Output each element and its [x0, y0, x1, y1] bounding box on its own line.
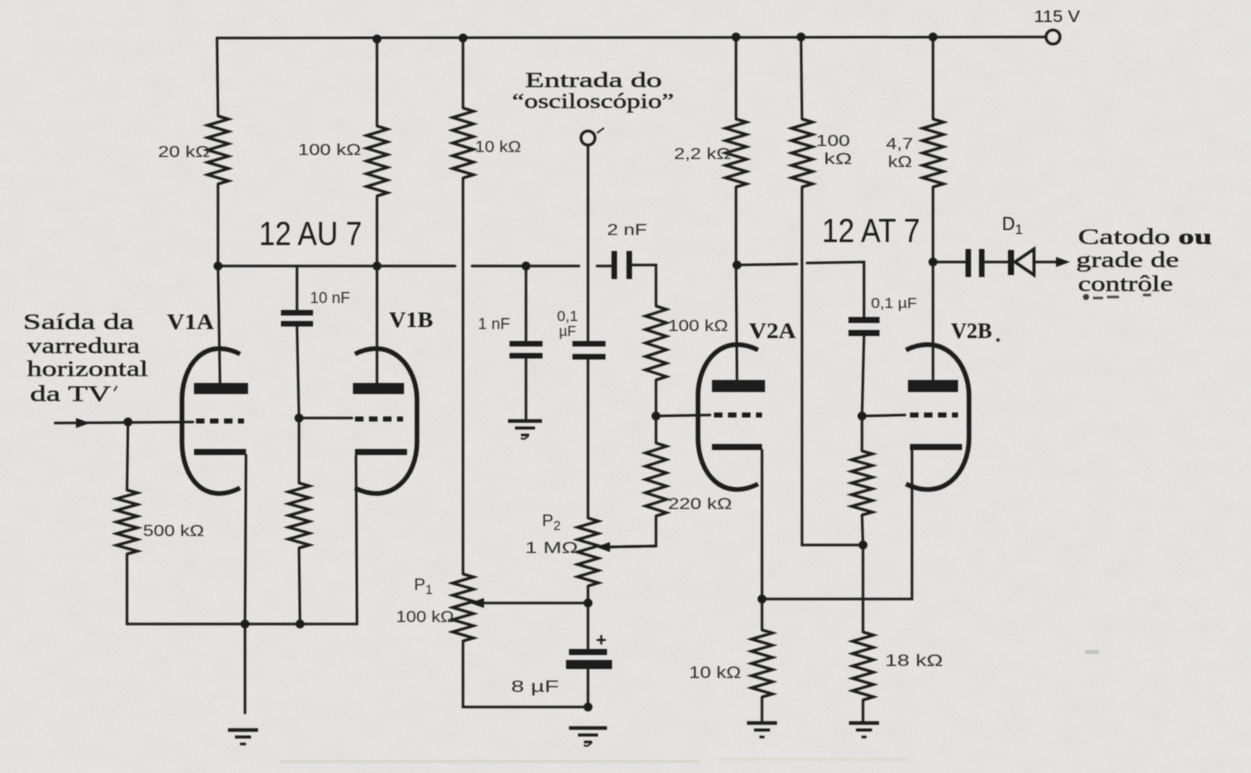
label 10nF: [310, 290, 350, 307]
node P1 wiper: [584, 599, 593, 608]
tube V2B envelope: [906, 345, 969, 490]
label P1: [414, 575, 433, 597]
ground 10k: [747, 723, 777, 737]
wire 100k right top: [801, 37, 802, 119]
label 4k7 b: [888, 154, 912, 171]
ground 18k: [849, 723, 879, 737]
label input line1: [23, 309, 134, 334]
wire 10k bot top: [761, 599, 764, 630]
node V2B plate: [929, 258, 938, 267]
node rail-100k: [373, 35, 382, 44]
svg-text:10 nF: 10 nF: [310, 290, 350, 307]
svg-text:100 kΩ: 100 kΩ: [668, 318, 728, 335]
label 0,1uF left b: [559, 323, 576, 340]
wire 2nF to x656 corner: [632, 265, 656, 306]
paper specks: [280, 650, 1099, 763]
label 1nF: [478, 316, 510, 333]
capacitor 10nF: [281, 310, 313, 327]
wire V2B grid lead: [862, 415, 905, 416]
label V1A: [167, 309, 214, 334]
resistor 4k7: [923, 119, 944, 187]
wire P1 bottom: [463, 641, 588, 707]
label P1 value: [396, 609, 454, 626]
label 10k: [475, 139, 521, 156]
node V2B grid: [858, 412, 867, 421]
potentiometer P1: [453, 574, 474, 641]
node rail-100k right: [797, 33, 806, 42]
tube V2A plate: [712, 380, 765, 392]
label 12AT7: [822, 212, 920, 249]
label 2nF: [607, 222, 647, 239]
wire bottom bus: [245, 456, 357, 624]
label 18k: [885, 651, 943, 670]
wire D1 lead1: [933, 261, 965, 264]
diode D1 bar: [1008, 250, 1014, 275]
resistor 500k: [117, 490, 138, 554]
wire 8uF bottom: [587, 669, 590, 707]
tube V1B plate lead: [376, 266, 379, 383]
wire 100k top: [376, 39, 379, 126]
wire V1B grid lead: [299, 417, 352, 420]
tube V2A cathode: [712, 444, 762, 450]
label catodo line1: [1078, 224, 1212, 249]
wire 10k bot bottom: [761, 697, 764, 722]
svg-text:115 V: 115 V: [1034, 7, 1081, 26]
svg-text:10 kΩ: 10 kΩ: [689, 663, 741, 682]
svg-text:V1A: V1A: [167, 309, 214, 334]
label P2: [542, 511, 561, 533]
tube V2B plate lead: [932, 262, 935, 379]
resistor 10k bottom: [752, 630, 773, 697]
svg-text:220 kΩ: 220 kΩ: [668, 496, 732, 513]
wire V1A cathode down: [245, 455, 246, 713]
tube V1B envelope: [355, 349, 417, 494]
wire V2A grid lead: [656, 415, 710, 416]
svg-text:kΩ: kΩ: [888, 154, 912, 171]
wire P1 node to 8uF: [587, 603, 590, 649]
tube V1A cathode: [194, 449, 246, 455]
svg-text:8 µF: 8 µF: [511, 677, 559, 696]
wire 100k mid bottom: [655, 380, 658, 416]
svg-text:da TV: da TV: [30, 381, 111, 406]
label 100k left: [298, 142, 361, 159]
node 1nF tap: [522, 262, 531, 271]
tube V1B cathode: [355, 449, 407, 455]
wire 20k top: [217, 38, 218, 116]
node V2A grid: [652, 412, 661, 421]
node V1B plate: [373, 262, 382, 271]
tube V2B cathode: [910, 444, 962, 450]
label 100k right a: [816, 133, 850, 150]
wire 220k top: [655, 416, 658, 443]
wire P2 bottom: [587, 586, 590, 603]
capacitor 1nF: [510, 341, 543, 359]
label 100k right b: [824, 151, 852, 168]
svg-text:V2A: V2A: [749, 318, 796, 343]
svg-text:contrôle: contrôle: [1078, 271, 1173, 296]
label D1: [1002, 214, 1023, 237]
terminal entrada: [581, 128, 604, 145]
node V2A cathode: [758, 595, 767, 604]
terminal 115 V: [1046, 30, 1060, 44]
label 4k7 a: [886, 136, 913, 153]
wire 2k2 bottom: [735, 187, 738, 265]
wire 1nF top: [525, 266, 528, 341]
node V2A plate: [733, 261, 742, 270]
wire 10nF to V1B grid node: [297, 327, 299, 419]
node V1A plate: [214, 262, 223, 271]
node 8uF gnd: [584, 703, 593, 712]
resistor 100k mid: [646, 306, 667, 380]
svg-text:18 kΩ: 18 kΩ: [885, 651, 943, 670]
resistor 100k left: [367, 126, 388, 196]
wire bus to 2nF: [597, 265, 611, 268]
label 8uF: [511, 677, 559, 696]
wire 20k bottom to V1A plate node: [217, 184, 220, 266]
label 2k2: [674, 146, 731, 163]
capacitor D1 coupling: [966, 249, 985, 277]
resistor 100k right: [792, 119, 813, 187]
svg-text:500 kΩ: 500 kΩ: [143, 523, 204, 540]
wire 0,1uF to P2: [587, 360, 590, 519]
resistor 2k2: [726, 119, 747, 187]
label 115 V: [1034, 7, 1081, 26]
wire V2A plate bus: [737, 264, 797, 265]
label P2 value: [525, 540, 578, 557]
svg-text:12 AT 7: 12 AT 7: [822, 212, 920, 249]
wire 10k top: [462, 38, 465, 108]
wire 500k bottom: [127, 554, 245, 624]
tube V2B grid: [910, 413, 958, 418]
label V2B: [951, 318, 1000, 343]
svg-text:Saída da: Saída da: [23, 309, 134, 334]
wire 18k bottom: [862, 700, 865, 722]
label 20k: [158, 144, 210, 161]
resistor 220k: [646, 443, 667, 516]
label 100k mid: [668, 318, 728, 335]
capacitor 0,1uF right: [849, 317, 880, 336]
wire 10k bottom long: [462, 178, 465, 574]
wire 1nF to gnd: [525, 359, 528, 421]
svg-text:“osciloscópio”: “osciloscópio”: [512, 89, 674, 113]
resistor V2B cathode: [852, 451, 873, 515]
svg-text:kΩ: kΩ: [824, 151, 852, 168]
label 8uF plus: [596, 630, 607, 650]
wire V2B cath res bottom: [862, 515, 863, 545]
wire grid leak bottom: [299, 548, 300, 624]
tube V2B plate: [908, 380, 958, 392]
resistor 18k: [853, 632, 874, 700]
svg-text:µF: µF: [559, 323, 576, 340]
label input line4: [30, 381, 117, 406]
wire 100k right long: [802, 187, 863, 545]
wire V2A plate bus2: [807, 262, 864, 317]
svg-text:0,1 µF: 0,1 µF: [871, 295, 917, 312]
label entrada line2: [512, 89, 674, 113]
svg-text:horizontal: horizontal: [27, 356, 148, 381]
label V2A: [749, 318, 796, 343]
wire D1 lead2: [985, 261, 1008, 264]
wire P1 wiper: [482, 602, 588, 605]
wire entrada down: [587, 145, 590, 341]
svg-text:+: +: [596, 630, 607, 650]
wire V2A cathode down: [761, 450, 764, 599]
wire bias to 18k: [862, 545, 865, 632]
svg-text:2,2 kΩ: 2,2 kΩ: [674, 146, 731, 163]
label 0,1uF right: [871, 295, 917, 312]
wire 10nF top: [296, 266, 299, 310]
tube V1A grid: [196, 419, 244, 424]
svg-text:100: 100: [816, 133, 850, 150]
wire 100k bottom to V1B plate node: [376, 196, 379, 266]
svg-text:10 kΩ: 10 kΩ: [475, 139, 521, 156]
svg-text:grade de: grade de: [1076, 247, 1179, 272]
wire plate bus: [218, 265, 455, 268]
resistor 500k top lead: [127, 422, 128, 490]
tube V1B grid: [355, 417, 403, 422]
node rail-2k2: [732, 33, 741, 42]
label catodo line3: [1078, 271, 1173, 296]
arrow P1 wiper: [470, 598, 484, 608]
svg-text:100 kΩ: 100 kΩ: [298, 142, 361, 159]
svg-text:2 nF: 2 nF: [607, 222, 647, 239]
tube V1A plate: [194, 383, 248, 394]
svg-text:4,7: 4,7: [886, 136, 913, 153]
ground 1nF: [508, 421, 542, 439]
wire D1 out: [1034, 261, 1056, 264]
svg-text:1 nF: 1 nF: [478, 316, 510, 333]
tube V1A envelope: [182, 349, 240, 494]
arrow P2 wiper: [596, 542, 610, 552]
capacitor 8uF plate1: [569, 649, 607, 655]
tube V1A plate lead: [218, 266, 220, 383]
arrow input: [76, 418, 90, 428]
label input line3: [27, 356, 148, 381]
svg-text:V1B: V1B: [389, 307, 433, 332]
label entrada line1: [525, 68, 662, 92]
tube V2A plate lead: [736, 265, 737, 379]
svg-text:varredura: varredura: [27, 333, 140, 358]
svg-text:100 kΩ: 100 kΩ: [396, 609, 454, 626]
node rail-10k: [459, 34, 468, 43]
node cathode gnd b: [296, 620, 305, 629]
diode D1 triangle: [1015, 249, 1034, 275]
node V1B grid: [295, 414, 304, 423]
wire plate bus b: [472, 265, 579, 268]
resistor 20k: [208, 116, 229, 184]
capacitor 2nF: [612, 251, 633, 279]
ground V1A: [228, 730, 258, 744]
wire cathode bus right: [762, 450, 912, 599]
node cathode gnd a: [241, 620, 250, 629]
potentiometer P2: [578, 518, 599, 586]
label 500k: [143, 523, 204, 540]
wire 0,1uF right bottom: [862, 336, 864, 416]
arrow D1 out: [1056, 257, 1070, 267]
tube V2A grid: [714, 413, 762, 418]
wire 220k bottom: [608, 516, 656, 547]
node input: [124, 418, 133, 427]
svg-text:V2B: V2B: [951, 318, 992, 343]
label 220k: [668, 496, 732, 513]
capacitor 0,1uF left: [573, 341, 606, 360]
node rail-4k7: [929, 33, 938, 42]
tube V1B plate: [353, 383, 404, 394]
label V1B: [389, 307, 433, 332]
smudge under controle: [1083, 294, 1151, 300]
tube V2A envelope: [698, 345, 758, 490]
wire 2k2 top: [735, 37, 738, 119]
resistor 10k: [453, 108, 474, 178]
label 10k bottom: [689, 663, 741, 682]
wire 4k7 bottom: [932, 187, 935, 262]
capacitor 8uF plate2: [566, 660, 612, 669]
wire input: [55, 422, 193, 423]
node V2B bias: [859, 541, 868, 550]
wire V2B cath res top: [861, 416, 864, 451]
wire P2 wiper: [608, 546, 656, 547]
resistor V1B grid leak: [289, 483, 310, 548]
ground 8uF: [569, 728, 607, 746]
wire 4k7 top: [932, 37, 935, 119]
wire grid leak top: [298, 418, 301, 483]
power rail 115 V: [217, 37, 1046, 38]
svg-text:12 AU 7: 12 AU 7: [259, 215, 362, 252]
svg-text:1 MΩ: 1 MΩ: [525, 540, 578, 557]
label catodo line2: [1076, 247, 1179, 272]
svg-text:Catodo ou: Catodo ou: [1078, 224, 1212, 249]
svg-text:20 kΩ: 20 kΩ: [158, 144, 210, 161]
label 0,1uF left a: [557, 308, 578, 325]
label input line2: [27, 333, 140, 358]
label 12AU7: [259, 215, 362, 252]
